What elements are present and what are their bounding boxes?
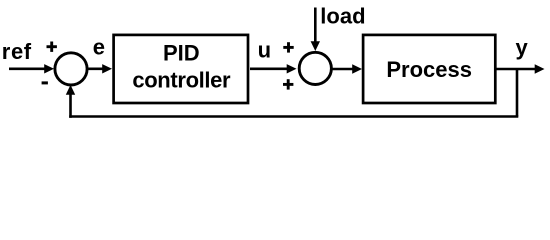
wire S2 to Process	[331, 64, 362, 73]
svg-text:Process: Process	[386, 57, 472, 82]
svg-text:ref: ref	[2, 39, 32, 64]
node plus sign upper at S2	[283, 42, 293, 52]
svg-text:u: u	[258, 37, 271, 62]
svg-text:y: y	[516, 35, 529, 60]
wire u: PID controller to summing junction S2	[250, 64, 297, 73]
node plus sign at S1	[47, 42, 57, 52]
wire feedback path from output down, left, and up into S1	[66, 69, 519, 118]
wire ref input arrow into summing junction S1	[9, 64, 54, 73]
svg-text:load: load	[320, 4, 365, 29]
node plus sign lower at S2	[283, 79, 293, 89]
node minus sign at S1	[42, 81, 48, 84]
wire e: S1 to PID controller	[87, 64, 112, 73]
node e label	[93, 35, 105, 60]
node ref label	[2, 39, 32, 64]
block Process	[363, 35, 495, 103]
wire output y	[495, 64, 545, 73]
summing junction S2	[299, 52, 331, 84]
wire load input arrow into S2	[311, 8, 320, 52]
node u label	[258, 37, 271, 62]
summing junction S1	[55, 53, 87, 85]
node y label	[516, 35, 529, 60]
svg-text:e: e	[93, 35, 105, 60]
node load label	[320, 4, 365, 29]
block PID controller	[114, 35, 248, 103]
svg-text:PID: PID	[163, 41, 200, 66]
svg-text:controller: controller	[132, 67, 231, 92]
